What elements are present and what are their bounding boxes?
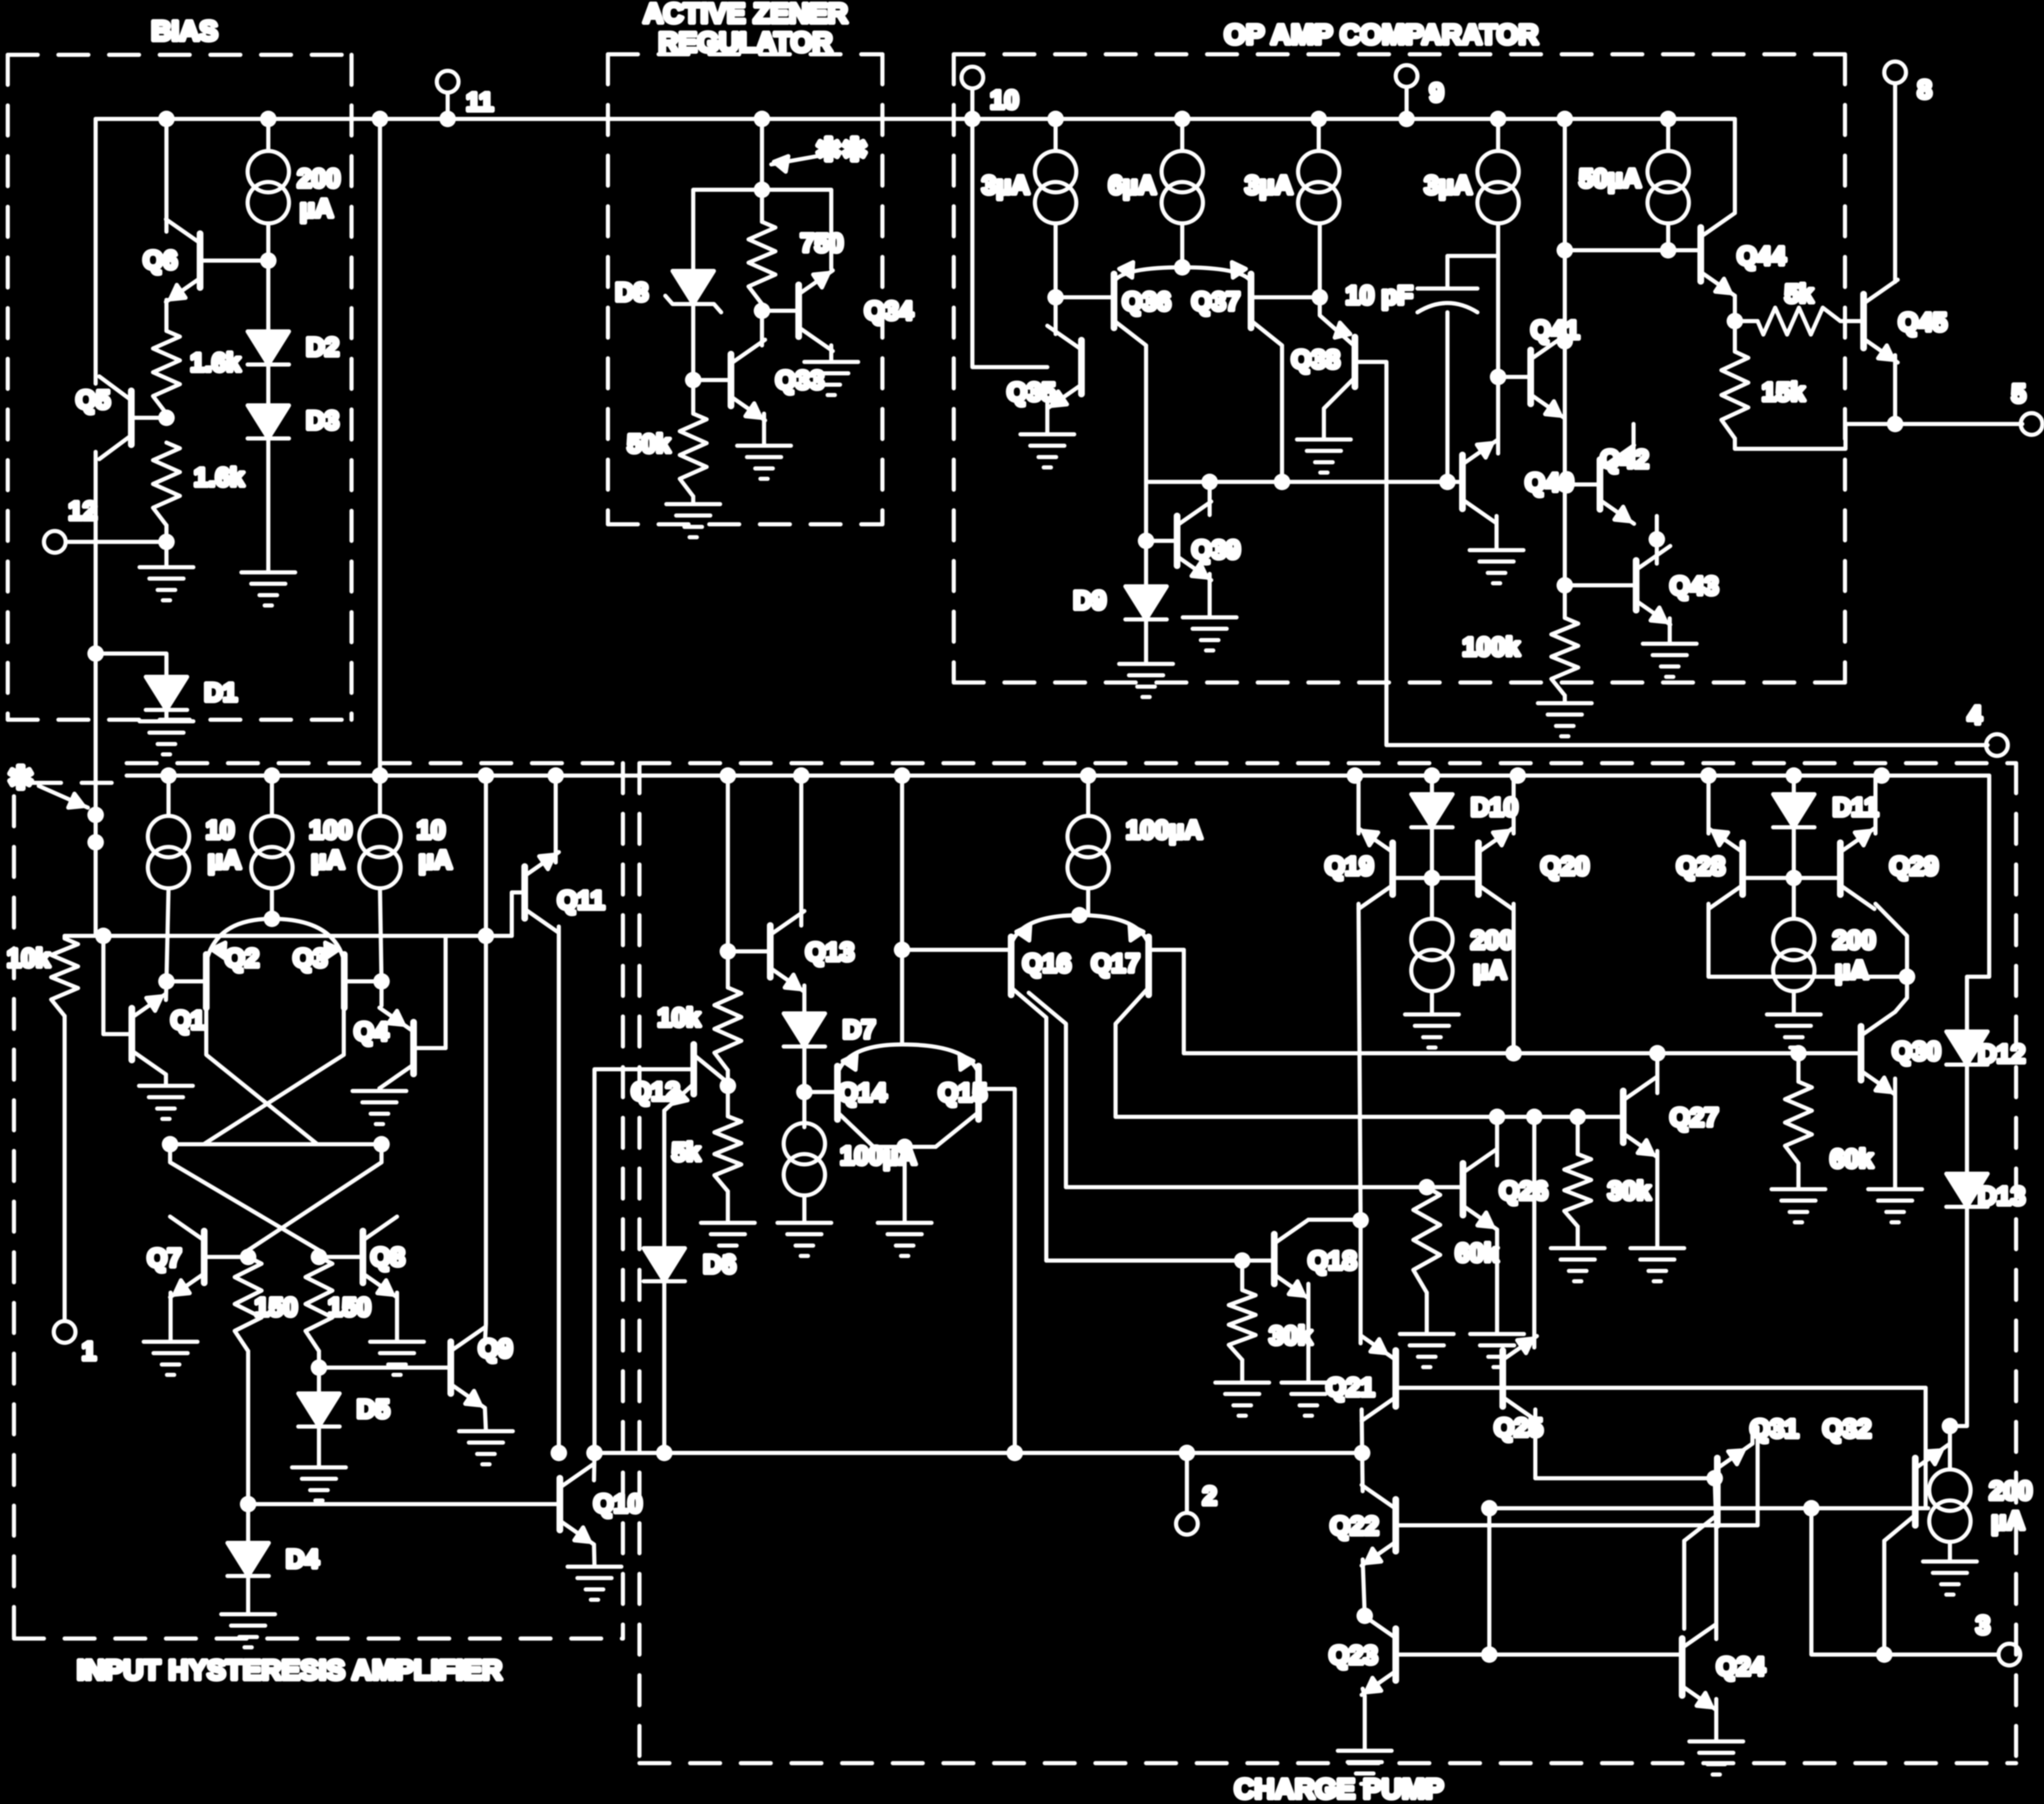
- junction pair bottom: [896, 1139, 913, 1155]
- ground below Q40: [1470, 550, 1523, 583]
- op amp comparator box bottom edge: [954, 680, 1845, 685]
- wire D11 column: [1792, 776, 1796, 794]
- junction pin 9 rail: [1398, 111, 1415, 127]
- annotation star arrow: [39, 786, 88, 808]
- junction pair top Q16 Q17: [1071, 907, 1088, 923]
- zener regulator box left edge: [606, 54, 610, 524]
- wire Q5 emitter column: [94, 452, 98, 936]
- wire cap bottom lead: [1445, 312, 1450, 482]
- junction subrail 100uA cp: [1080, 767, 1096, 784]
- svg-text:µA: µA: [311, 845, 345, 874]
- svg-text:Q34: Q34: [864, 296, 913, 325]
- ground below 100k: [1538, 703, 1592, 736]
- transistor pair Q14 Q15: [837, 1044, 979, 1119]
- wire Q11 base lead: [512, 892, 525, 936]
- wire Q37 collector drop: [1251, 321, 1282, 482]
- svg-text:OP AMP COMPARATOR: OP AMP COMPARATOR: [1224, 19, 1538, 50]
- wire Q25 collector drop: [1533, 1409, 1537, 1478]
- bias box left edge: [6, 55, 10, 720]
- junction Q41 collector tap: [1557, 333, 1573, 350]
- junction Q12 collector node: [720, 1078, 736, 1094]
- svg-text:Q37: Q37: [1192, 287, 1241, 316]
- wire 50uA top stub: [1666, 119, 1670, 151]
- junction 50uA Q44 base: [1660, 242, 1676, 259]
- ground below Q18: [1282, 1383, 1335, 1416]
- junction Q27 collector node: [1649, 1045, 1666, 1062]
- wire 3uA second top stub: [1317, 119, 1321, 151]
- junction pair top Q2 Q3: [264, 911, 280, 927]
- svg-text:1.6k: 1.6k: [190, 348, 241, 377]
- svg-text:CHARGE PUMP: CHARGE PUMP: [1234, 1773, 1443, 1804]
- wire Q39 base lead: [1146, 539, 1177, 543]
- wire 5k ground stub: [726, 1191, 730, 1223]
- svg-text:BIAS: BIAS: [151, 16, 218, 47]
- junction subrail pair column: [894, 767, 910, 784]
- wire latch bus: [170, 1142, 382, 1146]
- wire D5 ground stub: [317, 1427, 321, 1467]
- wire Q27 base lead: [1578, 1115, 1623, 1119]
- wire Q27 collector riser: [1655, 1053, 1659, 1093]
- wire pin12 node ground stub: [164, 542, 169, 567]
- svg-text:Q4: Q4: [354, 1017, 389, 1046]
- transistor Q10: [560, 1464, 594, 1544]
- junction Q7 base node: [240, 1249, 256, 1265]
- svg-text:µA: µA: [300, 194, 333, 223]
- wire Q26 base bus: [1066, 1185, 1427, 1189]
- wire Q40 collector drop: [1494, 516, 1499, 550]
- wire 50uA bottom stub: [1666, 223, 1670, 250]
- bias box top edge: [8, 53, 352, 57]
- wire Q8 base lead: [319, 1255, 363, 1259]
- ground below D9: [1119, 664, 1173, 697]
- input hysteresis amplifier box left edge: [12, 796, 16, 1639]
- svg-text:D8: D8: [615, 278, 648, 307]
- wire pair bottom bar: [874, 1145, 936, 1149]
- svg-text:6µA: 6µA: [1108, 171, 1156, 200]
- wire D13 drop: [1949, 1207, 1967, 1426]
- junction 30k cp1 tap: [1234, 1252, 1250, 1269]
- wire Q26 emitter drop: [1495, 1230, 1499, 1334]
- wire resistor to Q5 base node: [164, 414, 169, 418]
- svg-text:30k: 30k: [1269, 1321, 1313, 1350]
- transistor Q12: [664, 1044, 728, 1111]
- wire cap top lead: [1447, 256, 1498, 289]
- wire 6uA top stub: [1180, 119, 1184, 151]
- ground below Q34: [804, 362, 858, 395]
- wire 200uA cp2 stub: [1792, 878, 1796, 919]
- transistor Q35: [1047, 326, 1081, 408]
- current source 100uA mid: [784, 1123, 825, 1195]
- wire 200uA cp3 ground stub: [1948, 1542, 1952, 1562]
- svg-text:Q44: Q44: [1737, 241, 1786, 270]
- ground below D5: [292, 1467, 346, 1500]
- ground below pin 12 node: [140, 567, 193, 600]
- wire Q44 base lead: [1565, 248, 1701, 252]
- wire 3uA2 bottom stub: [1318, 223, 1322, 297]
- wire pin 8 column: [1893, 83, 1897, 282]
- junction subrail 10uA first: [160, 767, 177, 784]
- pin 3 terminal: [1999, 1644, 2020, 1665]
- wire 200uA cp2 ground stub: [1792, 991, 1796, 1014]
- svg-text:D9: D9: [1073, 586, 1106, 615]
- wire Q23 base riser: [1487, 1508, 1491, 1655]
- wire cross latch C: [170, 1144, 319, 1257]
- wire lower supply rail: [127, 774, 1989, 778]
- junction pin 12 node: [158, 534, 175, 550]
- ground below 200uA cp3: [1923, 1562, 1977, 1595]
- wire Q23 base loop: [1396, 1653, 1489, 1657]
- transistor Q25: [1503, 1336, 1537, 1421]
- wire Q16 collector drop A: [1011, 988, 1046, 1261]
- wire Q22 base wire: [1396, 1523, 1758, 1527]
- svg-text:Q2: Q2: [225, 944, 260, 973]
- transistor Q5: [99, 376, 131, 459]
- wire D7 to Q14 node: [802, 1047, 806, 1092]
- svg-text:Q24: Q24: [1716, 1652, 1765, 1681]
- wire Q35 collector riser: [1054, 223, 1058, 334]
- svg-text:D13: D13: [1978, 1181, 2025, 1210]
- transistor Q19: [1359, 828, 1393, 909]
- wire Q31 emitter riser: [1750, 1427, 1755, 1444]
- current source 6uA: [1162, 151, 1203, 223]
- ground below Q24: [1689, 1741, 1743, 1775]
- wire pin 2 riser: [1185, 1453, 1189, 1513]
- svg-text:µA: µA: [1991, 1506, 2025, 1535]
- wire Q11 collector join: [554, 858, 558, 862]
- svg-text:Q32: Q32: [1822, 1414, 1871, 1443]
- transistor Q13: [770, 911, 804, 992]
- wire Q26 base lead: [1427, 1185, 1463, 1189]
- wire Q19 collector to Q21: [1359, 1220, 1363, 1343]
- wire zener top right branch: [762, 190, 831, 269]
- wire Q9 collector join: [485, 1324, 486, 1344]
- wire Q7 emitter drop: [169, 1293, 173, 1342]
- current source 50uA: [1648, 151, 1689, 223]
- zener diode D8: [665, 271, 721, 312]
- junction rail 3uA first: [1047, 111, 1064, 127]
- input hysteresis amplifier box bottom edge: [14, 1636, 623, 1641]
- wire 200uA cp1 ground stub: [1430, 991, 1434, 1014]
- pin 5 terminal: [2021, 413, 2042, 435]
- transistor Q32: [1884, 1444, 1950, 1541]
- wire Q25 emitter riser: [1532, 1117, 1536, 1347]
- wire 60k cp2 ground stub: [1796, 1163, 1801, 1189]
- transistor Q8: [363, 1217, 397, 1297]
- junction Q42 Q43 node: [1649, 531, 1665, 548]
- junction 750 bottom node: [754, 302, 770, 319]
- current source 200uA bias: [248, 151, 289, 223]
- svg-text:60k: 60k: [1455, 1238, 1499, 1267]
- junction Q41 base node: [1490, 369, 1506, 385]
- ground below Q43: [1643, 644, 1697, 677]
- junction rail 200uA: [260, 111, 277, 127]
- pin 8 terminal: [1884, 62, 1906, 83]
- junction subrail Q19: [1347, 767, 1363, 784]
- junction Q25 emitter bus: [1526, 1109, 1543, 1125]
- wire Q33 base lead: [693, 378, 731, 382]
- wire Q28 emitter riser: [1706, 776, 1711, 833]
- junction Q30 collector node: [1899, 968, 1915, 985]
- junction subrail Q29: [1873, 767, 1890, 784]
- wire Q30 emitter drop: [1893, 1079, 1897, 1189]
- charge pump box bottom edge: [639, 1761, 2016, 1765]
- op amp comparator box right edge: [1843, 54, 1847, 683]
- transistor pair Q36 Q37: [1114, 262, 1251, 328]
- ground below 30k cp1: [1215, 1383, 1269, 1416]
- transistor Q20: [1478, 828, 1513, 909]
- wire Q6 base lead: [200, 259, 268, 263]
- wire Q10 base lead: [248, 1502, 560, 1506]
- annotation double star arrow: [771, 155, 823, 164]
- junction Q21 collector node: [1354, 1445, 1370, 1461]
- junction pin 3 bus: [1876, 1646, 1893, 1663]
- svg-text:Q23: Q23: [1329, 1641, 1378, 1670]
- svg-text:200: 200: [297, 164, 340, 193]
- junction star node lower: [87, 834, 104, 851]
- wire Q6 emitter to resistor: [164, 300, 169, 331]
- junction subrail 10uA second: [372, 767, 388, 784]
- junction Q16 base tap: [894, 942, 910, 958]
- wire base bus corner: [1924, 1388, 1928, 1508]
- wire 200uA cp3 top stub: [1948, 1426, 1952, 1469]
- junction latch bus right: [373, 1136, 390, 1153]
- junction subrail 10k column: [720, 767, 736, 784]
- diode D6: [644, 1248, 685, 1281]
- wire Q22 collector riser: [1362, 1453, 1363, 1491]
- svg-text:Q22: Q22: [1330, 1511, 1379, 1540]
- junction 60k cp2 tap: [1790, 1045, 1807, 1062]
- transistor Q31: [1684, 1444, 1752, 1541]
- transistor Q7: [170, 1217, 204, 1297]
- wire Q23 emitter drop: [1363, 1689, 1365, 1751]
- transistor Q28: [1709, 828, 1743, 909]
- wire cross latch B: [204, 1008, 344, 1144]
- wire D8 node to 50k: [691, 380, 695, 414]
- pin 10 terminal: [962, 67, 983, 88]
- wire 15k top lead: [1733, 321, 1737, 352]
- current source 200uA cp1: [1411, 919, 1453, 991]
- resistor 150 left: [235, 1257, 262, 1351]
- svg-text:Q29: Q29: [1889, 852, 1939, 881]
- wire Q6 node to D2: [266, 261, 270, 331]
- wire pin2 wire: [1489, 1653, 1682, 1657]
- svg-text:Q33: Q33: [775, 366, 825, 395]
- diode D9: [1125, 586, 1167, 619]
- junction Q26 base node: [1418, 1179, 1435, 1195]
- input hysteresis amplifier box top step: [31, 781, 127, 785]
- resistor 30k cp1: [1229, 1290, 1256, 1360]
- junction Q10 collector node: [586, 1445, 603, 1461]
- wire Q24 emitter drop: [1714, 1699, 1718, 1741]
- junction Q24 collector node: [1706, 1470, 1723, 1487]
- current source 100uA input: [251, 816, 293, 888]
- wire D4 ground stub: [246, 1576, 250, 1614]
- bias box bottom edge: [8, 718, 352, 722]
- wire Q12 emitter to D6: [662, 1111, 666, 1248]
- ground below Q7: [144, 1342, 197, 1375]
- wire Q31 Q32 base bus: [1489, 1506, 1928, 1510]
- input hysteresis amplifier box top edge: [127, 761, 623, 765]
- wire Q6 collector riser: [164, 119, 169, 223]
- wire 10uA first bottom: [166, 888, 169, 981]
- junction D4 node: [240, 1496, 256, 1512]
- transistor Q41: [1531, 336, 1565, 418]
- junction Q14 base node: [796, 1084, 813, 1100]
- junction Q6 base node: [260, 252, 277, 269]
- wire Q17 base lead: [1149, 948, 1184, 952]
- ground below Q4: [353, 1091, 406, 1124]
- wire Q37 base lead: [1251, 295, 1320, 299]
- junction subrail Q9 column: [478, 767, 494, 784]
- wire 200uA bottom stub: [266, 223, 270, 261]
- ground below Q10: [568, 1567, 621, 1600]
- wire Q10 collector to Q12 base: [594, 1069, 694, 1453]
- bias box right edge: [349, 55, 354, 720]
- wire pair tail stub: [903, 1147, 907, 1223]
- input hysteresis amplifier box right edge: [621, 763, 625, 1639]
- junction Q20 collector node: [1505, 1045, 1522, 1062]
- ground below 30k cp2: [1551, 1248, 1605, 1281]
- svg-text:150: 150: [328, 1293, 371, 1322]
- junction pin 2 tap: [1179, 1445, 1195, 1461]
- resistor 1.6k lower: [153, 443, 180, 525]
- svg-text:Q21: Q21: [1326, 1373, 1375, 1402]
- wire D1 to ground: [164, 710, 169, 721]
- ground below 200uA cp2: [1767, 1014, 1821, 1048]
- junction Q23 base node: [1481, 1646, 1498, 1663]
- current source 3uA second: [1298, 151, 1339, 223]
- wire Q1 collector drop: [164, 1074, 168, 1086]
- wire Q42 collector riser: [1631, 424, 1636, 463]
- junction rail 50uA: [1660, 111, 1676, 127]
- wire Q32 emitter join: [1948, 1426, 1952, 1444]
- junction Q19 Q20 base node: [1424, 870, 1440, 886]
- junction base bus left: [1481, 1500, 1498, 1517]
- svg-text:9: 9: [1429, 78, 1444, 107]
- wire Q36 base lead: [1056, 295, 1114, 299]
- ground below Q26: [1470, 1334, 1524, 1367]
- wire D9 column: [1144, 482, 1148, 586]
- svg-text:100: 100: [309, 815, 352, 844]
- svg-text:D5: D5: [357, 1394, 390, 1423]
- resistor 1.6k upper: [153, 331, 180, 414]
- svg-text:Q36: Q36: [1122, 287, 1171, 316]
- wire Q13 collector riser: [799, 776, 803, 926]
- svg-text:Q43: Q43: [1670, 571, 1719, 600]
- transistor Q34: [799, 270, 833, 351]
- svg-text:D6: D6: [703, 1250, 736, 1279]
- wire Q39 collector riser: [1208, 482, 1212, 515]
- ground below 60k cp1: [1400, 1334, 1454, 1367]
- diode D4: [227, 1543, 269, 1576]
- junction Q39 collector: [1201, 474, 1218, 490]
- transistor pair Q16 Q17: [1011, 915, 1149, 995]
- ground below Q1: [139, 1086, 193, 1119]
- ground below Q23: [1338, 1751, 1392, 1784]
- zener regulator box top edge: [608, 52, 882, 56]
- current source 10uA first: [148, 816, 189, 888]
- junction rail zener column: [754, 111, 770, 127]
- wire D2 to D3: [266, 365, 270, 405]
- wire Q4 base lead: [414, 1046, 446, 1050]
- svg-text:Q28: Q28: [1676, 852, 1726, 881]
- svg-text:10: 10: [206, 815, 235, 844]
- wire Q34 collector to ground: [829, 345, 833, 362]
- wire D5 stub: [317, 1368, 321, 1393]
- wire 150 left drop: [246, 1351, 250, 1504]
- junction rail 6uA: [1174, 111, 1191, 127]
- wire Q14 collector drop: [837, 1112, 874, 1147]
- wire Q5 collector riser: [94, 119, 98, 384]
- junction D6 bottom: [656, 1445, 673, 1461]
- wire Q33 emitter to ground: [762, 414, 766, 446]
- wire Q27 base bus: [1116, 1115, 1578, 1119]
- ground below Q39: [1183, 617, 1237, 650]
- svg-text:INPUT HYSTERESIS AMPLIFIER: INPUT HYSTERESIS AMPLIFIER: [77, 1655, 502, 1686]
- transistor Q26: [1463, 1149, 1497, 1230]
- resistor 60k cp2: [1785, 1082, 1812, 1163]
- junction latch bus left: [162, 1136, 178, 1153]
- svg-text:Q10: Q10: [593, 1489, 643, 1518]
- svg-text:µA: µA: [1473, 956, 1507, 984]
- wire 200uA top stub: [266, 119, 270, 151]
- wire D9 to ground: [1144, 619, 1148, 664]
- svg-text:✱✱: ✱✱: [816, 132, 868, 167]
- ground below Q30: [1868, 1189, 1922, 1222]
- svg-text:Q3: Q3: [293, 944, 328, 973]
- wire Q44 emitter drop: [1733, 296, 1737, 321]
- svg-text:10 pF: 10 pF: [1346, 281, 1413, 310]
- transistor Q40: [1462, 441, 1497, 523]
- wire 10uA first top stub: [166, 776, 171, 816]
- ground below Q27: [1630, 1248, 1684, 1281]
- wire Q9 base lead: [319, 1366, 451, 1370]
- wire D3 to ground: [266, 438, 270, 572]
- resistor 10k input: [51, 938, 78, 1016]
- svg-text:Q1: Q1: [171, 1006, 205, 1035]
- svg-text:50µA: 50µA: [1579, 164, 1641, 193]
- transistor Q9: [451, 1327, 485, 1408]
- wire Q10 collector join: [594, 1453, 594, 1480]
- junction Q9 base node: [311, 1359, 327, 1376]
- wire 15k bottom jog: [1735, 424, 1845, 449]
- wire Q17 base drop: [1182, 950, 1186, 1053]
- charge pump box right edge: [2014, 763, 2018, 1763]
- svg-text:µA: µA: [208, 845, 241, 874]
- svg-text:Q30: Q30: [1892, 1037, 1941, 1066]
- current source 200uA cp3: [1929, 1469, 1971, 1542]
- wire input bus: [103, 934, 486, 938]
- wire Q9 collector column: [484, 776, 488, 1324]
- wire 5k left lead: [1735, 319, 1758, 323]
- wire Q7 base lead: [204, 1255, 248, 1259]
- current source 100uA cp: [1067, 816, 1109, 888]
- transistor Q18: [1274, 1220, 1308, 1298]
- svg-text:150: 150: [254, 1293, 297, 1322]
- wire Q19 collector drop: [1359, 904, 1361, 1220]
- wire Q17 collector drop: [1116, 988, 1149, 1117]
- junction rail 100k column: [1557, 111, 1573, 127]
- wire Q29 emitter riser: [1873, 776, 1878, 833]
- wire 100uA input top stub: [270, 776, 274, 816]
- wire D6 to bus: [662, 1281, 666, 1453]
- wire Q24 collector riser: [1715, 1478, 1716, 1639]
- wire pin 9 stub: [1405, 87, 1409, 119]
- wire 750 node to Q33 collector: [760, 311, 764, 345]
- svg-text:D12: D12: [1978, 1039, 2025, 1068]
- wire Q43 base lead: [1565, 583, 1636, 587]
- wire Q13 emitter drop: [802, 986, 806, 1013]
